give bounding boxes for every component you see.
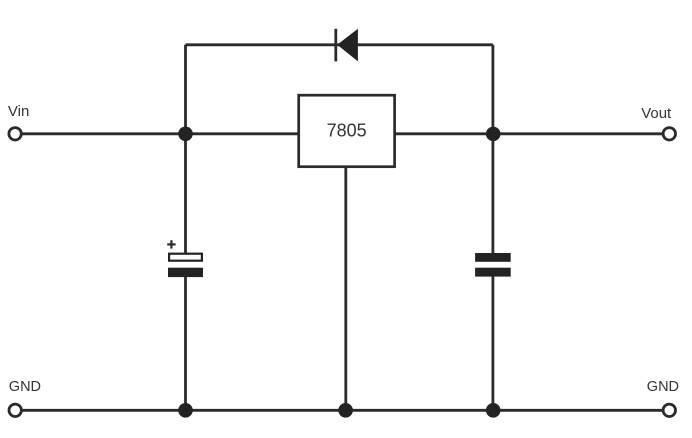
node Vout junction	[486, 127, 501, 142]
wire capacitor C2 down to ground rail	[491, 276, 494, 410]
node ground junction right	[486, 403, 501, 418]
diode D1 triangle	[337, 29, 358, 62]
node ground junction left	[178, 403, 193, 418]
capacitor C2 bottom plate	[475, 268, 511, 277]
terminal Vin	[9, 128, 21, 140]
svg-text:GND: GND	[9, 379, 41, 395]
capacitor C1 polarity plus sign	[167, 240, 175, 248]
svg-text:Vin: Vin	[8, 103, 29, 120]
label Vout	[641, 105, 672, 122]
node Vin junction	[178, 127, 193, 142]
terminal GND left	[9, 404, 21, 416]
terminal GND right	[663, 404, 675, 416]
regulator U1 body	[299, 95, 395, 167]
wire Vin node down to capacitor C1	[184, 134, 187, 254]
node ground junction center	[338, 403, 353, 418]
wire right riser from top rail to Vout node	[491, 45, 494, 134]
capacitor C1 negative plate	[168, 268, 203, 277]
svg-text:Vout: Vout	[641, 105, 672, 122]
capacitor C1 positive plate	[169, 254, 202, 261]
regulator U1 value label 7805	[327, 121, 367, 141]
svg-text:7805: 7805	[327, 121, 367, 141]
wire ground rail	[22, 409, 664, 412]
wire left riser from top rail to Vin node	[184, 45, 187, 134]
wire Vout node down to capacitor C2	[491, 134, 494, 254]
wire regulator ground pin down to ground rail	[344, 167, 347, 411]
svg-text:GND: GND	[647, 379, 679, 395]
wire top rail	[186, 43, 493, 46]
label GND left	[9, 379, 41, 395]
wire regulator output to Vout terminal	[395, 132, 663, 135]
label GND right	[647, 379, 679, 395]
terminal Vout	[663, 128, 675, 140]
diode D1 cathode bar	[334, 29, 337, 62]
wire Vin terminal to regulator input	[22, 132, 299, 135]
label Vin	[8, 103, 29, 120]
capacitor C2 top plate	[475, 253, 511, 262]
wire capacitor C1 down to ground rail	[184, 277, 187, 411]
